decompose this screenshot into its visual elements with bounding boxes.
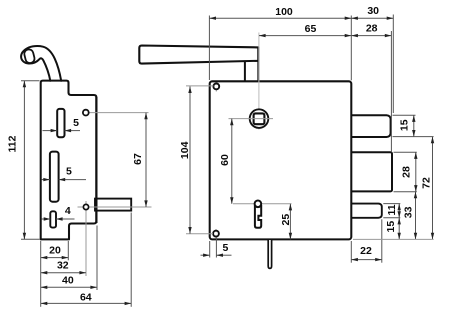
spindle center line vertical (258, 33, 260, 112)
top ext line deadbolt tip (390, 31, 392, 152)
dimension 104 ext top (186, 85, 213, 87)
dimension 15 bottom line (398, 218, 400, 240)
dimension 33 line (415, 192, 417, 240)
handle hook (side view) outer curve (21, 46, 61, 81)
dimension 5 body line right (216, 254, 231, 256)
dimension 28 right line (415, 152, 417, 191)
screw hole top left (213, 84, 219, 90)
dimension 20 line (41, 257, 69, 259)
screw hole bottom left (213, 231, 219, 237)
slot 3 (4 wide) (50, 211, 56, 227)
svg-text:104: 104 (179, 141, 191, 159)
dimension 4 slot3 line left (42, 218, 51, 220)
keyhole stem (255, 205, 261, 228)
svg-text:5: 5 (66, 166, 72, 178)
svg-text:64: 64 (80, 291, 92, 303)
svg-text:112: 112 (6, 135, 18, 152)
svg-text:32: 32 (57, 259, 69, 271)
handle neck left edge (244, 61, 246, 81)
dimension 67 ext from circle1 (90, 112, 149, 114)
svg-text:65: 65 (305, 23, 317, 35)
bottom ext line x97 (96, 226, 98, 291)
top ext line latch tip (392, 15, 394, 114)
dimension 5 slot1 line left (43, 130, 58, 132)
bottom ext line x68.3 (67, 241, 69, 260)
dimension 112 ext top (21, 80, 40, 82)
handle lever (139, 46, 258, 64)
top ext line body right (350, 16, 352, 81)
svg-text:28: 28 (366, 23, 378, 35)
dimension 30 line (351, 17, 393, 19)
svg-text:100: 100 (275, 6, 293, 18)
dimension 72 line (432, 137, 434, 240)
plate left edge redraw over stub (95, 97, 97, 223)
svg-text:40: 40 (62, 275, 74, 287)
svg-text:15: 15 (399, 119, 411, 131)
body bottom ext right (353, 238, 434, 240)
dimension 4 slot3 line right (56, 218, 75, 220)
dimension 22 line (351, 259, 382, 261)
spindle hub circle (250, 109, 269, 128)
bolt stub protruding right (side view) (95, 199, 131, 211)
bottom bolt bottom ext (383, 217, 400, 219)
svg-text:20: 20 (49, 244, 61, 256)
dimension 67 line (145, 113, 147, 207)
svg-text:4: 4 (65, 205, 71, 217)
deadbolt bottom ext (394, 191, 417, 193)
dimension 5 body line left (201, 254, 210, 256)
lock faceplate side view outline (41, 81, 97, 240)
handle neck right edge (257, 47, 259, 81)
hole circle 1 (83, 110, 89, 116)
dimension 5 slot2 line left (42, 179, 50, 181)
screw hole top left tick (215, 83, 217, 92)
dimension 5 body ext right (215, 237, 217, 258)
dimension 112 ext bottom (21, 238, 40, 240)
hole circle 2 (83, 204, 88, 209)
latch bolt top right (345, 115, 391, 137)
hole circle 2 center cross horizontal (78, 206, 152, 208)
keyhole center line horizontal (233, 203, 292, 205)
key pin below body (268, 240, 271, 268)
svg-text:11: 11 (386, 204, 398, 215)
svg-text:60: 60 (219, 154, 231, 166)
dimension 25 line (289, 204, 291, 240)
dimension 104 ext bottom (186, 233, 213, 235)
hole circle 2 center cross vertical (85, 201, 87, 276)
spindle center line vertical lower dash (258, 125, 260, 130)
dimension 32 line (41, 272, 86, 274)
dimension 11 line (398, 204, 400, 218)
svg-text:72: 72 (421, 177, 433, 189)
dimension 28 top line (351, 35, 391, 37)
dimension 112 line (23, 81, 25, 240)
svg-text:5: 5 (222, 242, 228, 254)
svg-text:30: 30 (367, 5, 379, 17)
bottom bolt right (345, 204, 382, 218)
handle hook end cap (23, 49, 35, 64)
dimension 64 line (41, 302, 132, 304)
screw hole bottom left tick (215, 229, 217, 239)
dimension 40 line (41, 286, 97, 288)
keyhole circle (255, 201, 262, 208)
deadbolt top ext (394, 151, 417, 153)
dimension 5 slot2 line right (59, 179, 86, 181)
svg-text:15: 15 (385, 221, 397, 233)
dimension 22 ext right (381, 219, 383, 262)
slot 1 (5 wide) (57, 109, 64, 137)
spindle square hole (254, 113, 265, 124)
dimension 60 line (231, 119, 233, 204)
svg-text:5: 5 (73, 117, 79, 129)
lock body (210, 81, 352, 239)
svg-text:22: 22 (360, 245, 372, 257)
bottom bolt top ext (383, 203, 400, 205)
dimension 22 ext left (350, 241, 352, 263)
deadbolt middle right (345, 152, 392, 191)
dimension 5 body ext left (209, 241, 211, 258)
spindle center line horizontal (229, 118, 274, 120)
slot 2 (5 wide) (50, 152, 59, 202)
top ext line body left (208, 16, 210, 81)
svg-text:33: 33 (402, 206, 414, 218)
dimension 100 line (209, 17, 351, 19)
svg-text:28: 28 (401, 166, 413, 178)
svg-text:25: 25 (280, 214, 292, 226)
dimension 65 line (259, 35, 351, 37)
bottom ext line x131.2 (130, 213, 132, 307)
dimension 15 top line (413, 115, 415, 136)
dimension 5 slot1 line right (65, 130, 81, 132)
dimension 104 line (189, 86, 191, 233)
bottom ext line x40.7 (40, 241, 42, 307)
svg-text:67: 67 (132, 153, 144, 165)
latch top ext (393, 114, 416, 116)
latch bottom ext (393, 136, 434, 138)
